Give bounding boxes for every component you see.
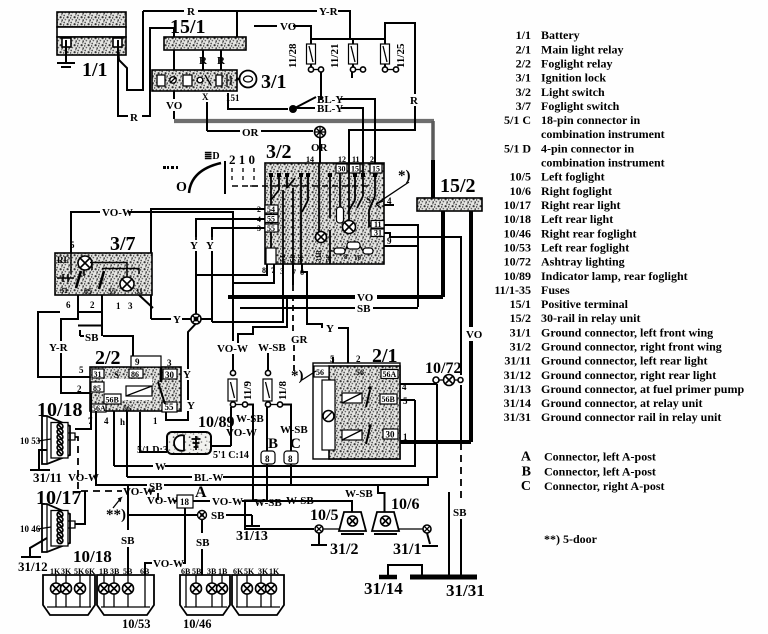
wire fuse 11/21 stub down — [351, 72, 353, 78]
3/2 left pin boxes 54/55/55 — [257, 205, 278, 233]
svg-text:31/12: 31/12 — [18, 559, 48, 574]
svg-text:Fuses: Fuses — [541, 283, 570, 297]
svg-text:R: R — [130, 112, 139, 124]
svg-text:SB: SB — [121, 535, 135, 547]
Y verticals to junction — [195, 251, 197, 316]
stub R 15/1 to 3/1 — [202, 50, 204, 70]
svg-text:Y: Y — [326, 323, 334, 335]
VO wire down from 15/1 — [173, 50, 175, 99]
thick VO from 15/2 down to 2/1 — [469, 211, 473, 327]
svg-text:C: C — [521, 479, 531, 494]
svg-text:12: 12 — [338, 155, 346, 164]
svg-text:1: 1 — [153, 416, 158, 426]
svg-text:S: S — [114, 370, 119, 380]
switch arm diagonal — [293, 97, 316, 109]
svg-text:56: 56 — [356, 368, 364, 377]
3/2 pin6 wire to Y of 2/1 — [302, 264, 322, 328]
svg-text:10/18: 10/18 — [504, 212, 531, 226]
svg-text:3/1: 3/1 — [261, 71, 287, 93]
svg-text:8: 8 — [262, 266, 266, 275]
svg-text:SB: SB — [357, 303, 371, 315]
svg-text:VO-W: VO-W — [153, 558, 184, 570]
second wire into 31/31 — [448, 492, 450, 575]
arrow into 3/2 — [376, 182, 409, 204]
svg-text:9: 9 — [135, 357, 140, 367]
junction dot Y — [191, 314, 201, 324]
svg-text:55: 55 — [267, 224, 275, 233]
indicator lamp 10/89 — [167, 432, 211, 454]
3/2 bottom-left white notch — [266, 248, 276, 264]
ground 31/14 bracket — [388, 565, 422, 577]
ignition lock 3/1 — [152, 70, 237, 91]
10/89 lamp symbol — [174, 435, 200, 451]
wire C to 10/6 — [290, 464, 292, 485]
main light relay 2/1 — [313, 363, 400, 459]
svg-text:W-SB: W-SB — [236, 413, 264, 425]
wire 11/25 top to R vertical — [385, 23, 415, 94]
A down to 10/53 cluster — [183, 508, 185, 563]
svg-text:3/2: 3/2 — [516, 85, 531, 99]
Y-R wire down to 2/2 — [61, 353, 90, 393]
svg-text:Ground connector, left rear li: Ground connector, left rear light — [541, 354, 708, 368]
3/2 pin7 wire to VO-W fuse feed — [233, 264, 274, 283]
svg-text:Ground connector, at relay uni: Ground connector, at relay unit — [541, 396, 702, 410]
BL-Y upper wire — [315, 98, 317, 100]
ground 31/11 — [39, 450, 47, 469]
wire fuse 11/8 left dot down to B — [266, 407, 268, 451]
svg-text:10/72: 10/72 — [425, 360, 461, 377]
svg-text:10/53: 10/53 — [504, 240, 531, 254]
svg-text:Connector, left A-post: Connector, left A-post — [544, 450, 656, 464]
svg-text:5/1 D:3: 5/1 D:3 — [137, 445, 168, 456]
ground 31/13 — [251, 515, 253, 525]
pin 4 right stub — [384, 204, 394, 206]
top R bus — [143, 10, 184, 12]
svg-text:31/31: 31/31 — [504, 410, 531, 424]
wire 3/2 pin55b left — [212, 228, 265, 237]
svg-text:Ground connector, left front w: Ground connector, left front wing — [541, 325, 713, 339]
svg-text:Foglight relay: Foglight relay — [541, 57, 612, 71]
svg-text:31/11: 31/11 — [33, 470, 62, 485]
svg-text:Right rear foglight: Right rear foglight — [541, 226, 637, 240]
svg-text:W-SB: W-SB — [280, 424, 308, 436]
battery 1/1 — [57, 12, 126, 55]
svg-text:56B: 56B — [382, 395, 396, 404]
svg-text:10/5: 10/5 — [510, 170, 531, 184]
svg-text:3: 3 — [167, 358, 172, 368]
svg-text:56A: 56A — [383, 370, 397, 379]
3/2 lamp left — [316, 232, 327, 243]
svg-text:Ground connector, right front: Ground connector, right front wing — [541, 340, 722, 354]
grey corner down to 15/2 — [431, 121, 435, 160]
svg-text:Connector, left A-post: Connector, left A-post — [544, 464, 656, 478]
svg-text:Foglight switch: Foglight switch — [541, 99, 620, 113]
svg-text:31/13: 31/13 — [504, 382, 531, 396]
ground 31/2 — [318, 533, 320, 544]
wire fuse 11/28 to BL-Y upper — [320, 72, 322, 100]
svg-text:Y: Y — [187, 400, 195, 412]
foglight switch 3/7 — [55, 253, 152, 295]
wire 10/17 stub — [75, 491, 85, 524]
10/6 right terminal — [399, 528, 423, 530]
svg-text:Positive terminal: Positive terminal — [541, 297, 629, 311]
svg-text:Ground connector, at fuel prim: Ground connector, at fuel primer pump — [541, 382, 744, 396]
2/2 foglight relay — [90, 367, 181, 411]
svg-text:S: S — [366, 195, 371, 205]
positive terminal 15/1 — [164, 37, 246, 50]
arrow to 56 box — [302, 371, 316, 380]
fuse feed bus y39 — [254, 25, 277, 27]
3/7 pin6 wire to SB — [78, 311, 102, 313]
svg-text:31/1: 31/1 — [510, 325, 531, 339]
svg-text:11: 11 — [352, 155, 360, 164]
svg-text:10/53: 10/53 — [122, 617, 150, 631]
svg-text:11/1-35: 11/1-35 — [494, 283, 531, 297]
svg-text:2/1: 2/1 — [516, 42, 531, 56]
svg-text:8: 8 — [265, 454, 270, 464]
wire 3/2 pin55a left — [196, 219, 265, 237]
svg-text:58: 58 — [289, 255, 297, 263]
SB wire to 2/2 pin9 — [79, 330, 81, 336]
svg-text:5/1 D: 5/1 D — [504, 141, 531, 155]
ignition switch contact dot — [289, 105, 297, 113]
VO-W wire from 3/7 pin5 — [71, 212, 100, 253]
svg-text:10/46: 10/46 — [504, 226, 531, 240]
svg-text:10/6: 10/6 — [510, 184, 531, 198]
svg-text:Y: Y — [173, 314, 181, 326]
3/2 resistor pill vertical — [337, 207, 344, 223]
svg-text:SB: SB — [85, 332, 99, 344]
svg-text:W-SB: W-SB — [258, 342, 286, 354]
svg-text:31: 31 — [94, 370, 102, 379]
2/2 pin h wire to BL-W — [126, 411, 128, 477]
light switch 3/2 — [265, 163, 384, 264]
svg-text:Battery: Battery — [541, 28, 580, 42]
svg-text:10/17: 10/17 — [504, 198, 531, 212]
svg-text:B: B — [522, 464, 531, 479]
svg-text:31/31: 31/31 — [446, 581, 485, 600]
svg-text:31/13: 31/13 — [236, 529, 268, 544]
svg-text:31/14: 31/14 — [364, 579, 403, 598]
svg-text:8: 8 — [288, 454, 293, 464]
3/7 pin2 wire to Y-R — [61, 295, 78, 341]
svg-text:10/6: 10/6 — [391, 496, 419, 513]
3/2 internal top pin boxes — [336, 164, 382, 174]
R wire down to 3/2 pin 12 — [349, 106, 415, 163]
svg-text:VO-W: VO-W — [217, 343, 248, 355]
wire 2/1 pin4 to BL-W vertical — [400, 383, 437, 385]
legend list — [494, 28, 744, 546]
svg-text:SB: SB — [211, 510, 225, 522]
svg-text:O: O — [176, 180, 187, 195]
wire 15/2 left drop (thick) — [441, 211, 445, 297]
svg-text:2/2: 2/2 — [516, 57, 531, 71]
SB wire down to 10/53 — [127, 486, 129, 530]
fuse 11/8 — [263, 353, 289, 407]
svg-text:2 1 0: 2 1 0 — [229, 152, 255, 167]
svg-text:**) 5-door: **) 5-door — [544, 532, 598, 546]
svg-text:30: 30 — [338, 165, 346, 174]
wire battery plus down to R label — [118, 48, 128, 116]
svg-text:3/7: 3/7 — [110, 233, 136, 255]
svg-text:W-SB: W-SB — [254, 497, 282, 509]
fuse 11/28 — [287, 39, 324, 72]
wire 3/2 pin31 box to 10/72 drop — [384, 233, 461, 375]
svg-text:VO: VO — [166, 100, 183, 112]
svg-text:14: 14 — [306, 155, 314, 164]
svg-text:Light switch: Light switch — [541, 85, 605, 99]
svg-text:15/1: 15/1 — [170, 16, 206, 38]
svg-text:3: 3 — [128, 301, 133, 311]
svg-text:18: 18 — [180, 497, 190, 507]
svg-text:31: 31 — [60, 286, 68, 295]
3/2 right pin boxes 11/31 — [371, 220, 384, 238]
svg-text:Ignition lock: Ignition lock — [541, 71, 606, 85]
svg-text:10 53: 10 53 — [20, 436, 41, 446]
svg-text:31: 31 — [135, 287, 143, 296]
3/7 lamp 1 — [78, 256, 92, 270]
3/2 pin8 wire to Y vertical — [197, 264, 267, 275]
svg-text:10/72: 10/72 — [504, 255, 531, 269]
Y dashed verticals — [196, 237, 212, 240]
2/2 pin1 wire to 10/89 — [140, 412, 167, 452]
svg-text:3/7: 3/7 — [516, 99, 531, 113]
svg-text:BL-W: BL-W — [194, 472, 223, 484]
ignition key symbol — [236, 71, 257, 88]
stub R2 15/1 to 3/1 — [220, 50, 222, 70]
2/2 pin7 wire to SB ground — [95, 411, 97, 486]
svg-text:SB: SB — [196, 537, 210, 549]
svg-text:A: A — [521, 450, 532, 465]
wire R up to 15/1 bar — [142, 28, 174, 116]
SB dashed wire to ground rail — [460, 385, 462, 443]
wire X down to OR — [206, 102, 208, 131]
svg-text:≣D: ≣D — [204, 151, 220, 162]
connector B — [261, 451, 275, 464]
wire 2/1 pin5 to W vertical — [400, 399, 415, 401]
VO thick wire — [228, 295, 355, 299]
svg-text:56: 56 — [316, 368, 324, 377]
svg-text:31/11: 31/11 — [504, 354, 531, 368]
2/2 pin5 wire left — [38, 312, 90, 377]
svg-text:4: 4 — [387, 196, 392, 206]
svg-text:VO-W: VO-W — [226, 427, 257, 439]
svg-text:6: 6 — [66, 300, 71, 310]
3/2 dashed selector line — [232, 185, 370, 187]
BL-W wire — [127, 476, 192, 478]
svg-text:VO: VO — [466, 329, 483, 341]
svg-text:5'1 C:14: 5'1 C:14 — [213, 450, 249, 461]
svg-text:56B: 56B — [106, 396, 120, 405]
svg-text:SB: SB — [453, 507, 467, 519]
3/2 pin7b wire down (GR dashed) — [292, 264, 294, 285]
lamp cluster 10/53 — [99, 567, 150, 576]
svg-text:31/1: 31/1 — [393, 541, 421, 558]
10/5 left terminal wire from B and fuse — [245, 464, 314, 529]
svg-text:Y: Y — [190, 240, 198, 252]
2/2 switch arm — [158, 382, 165, 404]
svg-text:Ashtray lighting: Ashtray lighting — [541, 255, 625, 269]
svg-text:*): *) — [291, 368, 304, 384]
dial graphic EDGE — [163, 151, 225, 195]
svg-text:Ground connector, right rear l: Ground connector, right rear light — [541, 368, 716, 382]
svg-text:2: 2 — [90, 300, 95, 310]
ground 31/1 — [427, 533, 430, 544]
svg-text:Y: Y — [206, 240, 214, 252]
zigzag VO to fuse 11/9 feed — [238, 297, 287, 343]
fuse 11/9 — [228, 354, 254, 407]
svg-text:31/14: 31/14 — [504, 396, 531, 410]
svg-text:Y-R: Y-R — [49, 342, 69, 354]
wire 151 to ignition switch contact — [228, 93, 288, 109]
svg-text:15: 15 — [351, 165, 359, 174]
svg-text:VO-W: VO-W — [102, 207, 133, 219]
svg-text:11/8: 11/8 — [277, 381, 289, 400]
svg-text:OR: OR — [242, 127, 260, 139]
3/2 pin3 wire down-left — [212, 264, 283, 322]
svg-text:Indicator lamp, rear foglight: Indicator lamp, rear foglight — [541, 269, 688, 283]
2/2 pin boxes — [91, 369, 177, 413]
wire 3/2 pin11 box to SB loop — [384, 225, 418, 307]
svg-text:B: B — [268, 436, 278, 452]
svg-text:2: 2 — [370, 155, 374, 164]
wire 15/1 top right to R bus — [236, 11, 238, 37]
svg-text:11/21: 11/21 — [329, 44, 341, 68]
VO-W wire A to foglight 10/5 — [193, 500, 210, 502]
svg-text:55: 55 — [165, 402, 175, 412]
svg-text:h: h — [120, 417, 125, 427]
wire Y dot down right side of 2/2 to pin 55 — [188, 324, 196, 370]
svg-text:X: X — [202, 92, 209, 102]
3/7 switch contacts — [57, 253, 139, 289]
svg-text:5/1 C: 5/1 C — [504, 113, 531, 127]
3/2 lamp right — [343, 221, 356, 234]
svg-text:56: 56 — [297, 255, 305, 263]
svg-text:31/2: 31/2 — [330, 541, 358, 558]
30-rail 15/2 — [417, 198, 482, 211]
svg-text:15: 15 — [372, 165, 380, 174]
svg-text:15/1: 15/1 — [510, 297, 531, 311]
svg-text:BL-Y: BL-Y — [317, 103, 343, 115]
svg-text:Main light relay: Main light relay — [541, 42, 623, 56]
3/7 pin3 wire diagonal — [139, 295, 153, 308]
svg-text:Connector, right A-post: Connector, right A-post — [544, 479, 665, 493]
svg-text:2/1: 2/1 — [372, 345, 398, 367]
svg-text:VO-W: VO-W — [147, 495, 178, 507]
SB wire under VO — [240, 307, 355, 309]
svg-text:3/1: 3/1 — [516, 71, 531, 85]
wire fuse 11/8 right dot to C — [282, 405, 291, 452]
SB wire down to 10/46 — [201, 520, 203, 534]
svg-text:W-SB: W-SB — [345, 488, 373, 500]
3/2 internal contacts row — [271, 163, 375, 264]
OR wire — [207, 130, 240, 132]
svg-text:11/9: 11/9 — [242, 381, 254, 400]
svg-text:C: C — [290, 436, 301, 452]
svg-text:Left rear foglight: Left rear foglight — [541, 240, 629, 254]
svg-text:15/2: 15/2 — [510, 311, 531, 325]
wire 3/2 pin54 left — [151, 209, 265, 319]
svg-text:VO-W: VO-W — [68, 472, 99, 484]
3/7 pin1 wire — [78, 325, 102, 327]
svg-text:VO-W: VO-W — [212, 496, 243, 508]
Y horizontal wire — [151, 318, 171, 320]
svg-text:11/28: 11/28 — [287, 43, 299, 68]
svg-text:W: W — [155, 461, 166, 473]
svg-text:10: 10 — [354, 254, 362, 262]
svg-text:W-SB: W-SB — [286, 495, 314, 507]
ground rail 31/31 — [410, 575, 477, 580]
VO-W wire 10/89 to fuse 11/9 — [211, 445, 231, 447]
svg-text:31: 31 — [374, 229, 382, 238]
svg-text:15/2: 15/2 — [440, 175, 476, 197]
ground at battery — [57, 52, 75, 67]
connector C — [284, 451, 298, 464]
2/2 pin 9 white box — [131, 356, 161, 367]
SB junction wire at grounds — [128, 514, 197, 516]
svg-text:10/5: 10/5 — [310, 507, 338, 524]
svg-text:Y: Y — [183, 369, 191, 381]
svg-text:combination instrument: combination instrument — [541, 156, 665, 170]
wire 10/18 to Y-R — [75, 393, 91, 429]
svg-text:combination instrument: combination instrument — [541, 127, 665, 141]
3/2 bottom internal labels — [279, 249, 362, 262]
W wire — [114, 465, 153, 467]
svg-text:Right rear light: Right rear light — [541, 198, 621, 212]
junction dot OR — [315, 127, 326, 138]
3/2 bottom pin labels — [262, 266, 304, 277]
svg-text:51: 51 — [279, 255, 287, 263]
svg-text:**): **) — [106, 507, 126, 523]
svg-text:2: 2 — [77, 384, 82, 394]
wire fuse 11/9 left dot down to 10/89 — [230, 407, 232, 446]
svg-text:1/1: 1/1 — [516, 28, 531, 42]
svg-text:GR: GR — [291, 334, 309, 346]
svg-text:31R: 31R — [315, 249, 323, 262]
svg-text:56A: 56A — [92, 404, 106, 413]
svg-text:31/2: 31/2 — [510, 340, 531, 354]
3/2 bottom resistor pills — [330, 242, 373, 254]
svg-text:4: 4 — [104, 416, 109, 426]
svg-text:86: 86 — [131, 370, 139, 379]
svg-text:Y-R: Y-R — [319, 6, 339, 18]
svg-text:VO: VO — [280, 21, 297, 33]
svg-text:10 46: 10 46 — [20, 524, 41, 534]
lamp cluster 10/17 right rear — [233, 567, 280, 576]
svg-text:R: R — [217, 55, 226, 67]
svg-text:3/2: 3/2 — [266, 141, 292, 163]
svg-text:4-pin connector in: 4-pin connector in — [541, 141, 634, 155]
3/7 lamp 2 — [120, 277, 134, 291]
svg-text:1: 1 — [116, 301, 121, 311]
2/2 coil — [126, 386, 152, 396]
svg-text:Left rear light: Left rear light — [541, 212, 613, 226]
fuse 11/25 — [381, 39, 408, 72]
wire OR dot down to 3/2 pin14 — [319, 138, 321, 164]
wire fuse 11/9 W-SB down to foglight 10/5 — [247, 405, 253, 501]
wire 15/2 top — [431, 160, 435, 198]
svg-text:18-pin connector in: 18-pin connector in — [541, 113, 640, 127]
thick VO wire to 2/1 pin30 — [400, 440, 471, 444]
svg-text:58: 58 — [325, 255, 333, 263]
2/2 pin4 wire to W — [113, 411, 115, 466]
SB ground wire — [96, 484, 147, 486]
grey OR-highlight line — [174, 119, 434, 123]
svg-text:Left foglight: Left foglight — [541, 170, 605, 184]
ground 31/12 — [30, 538, 47, 556]
svg-text:Right foglight: Right foglight — [541, 184, 612, 198]
svg-text:R: R — [199, 55, 208, 67]
